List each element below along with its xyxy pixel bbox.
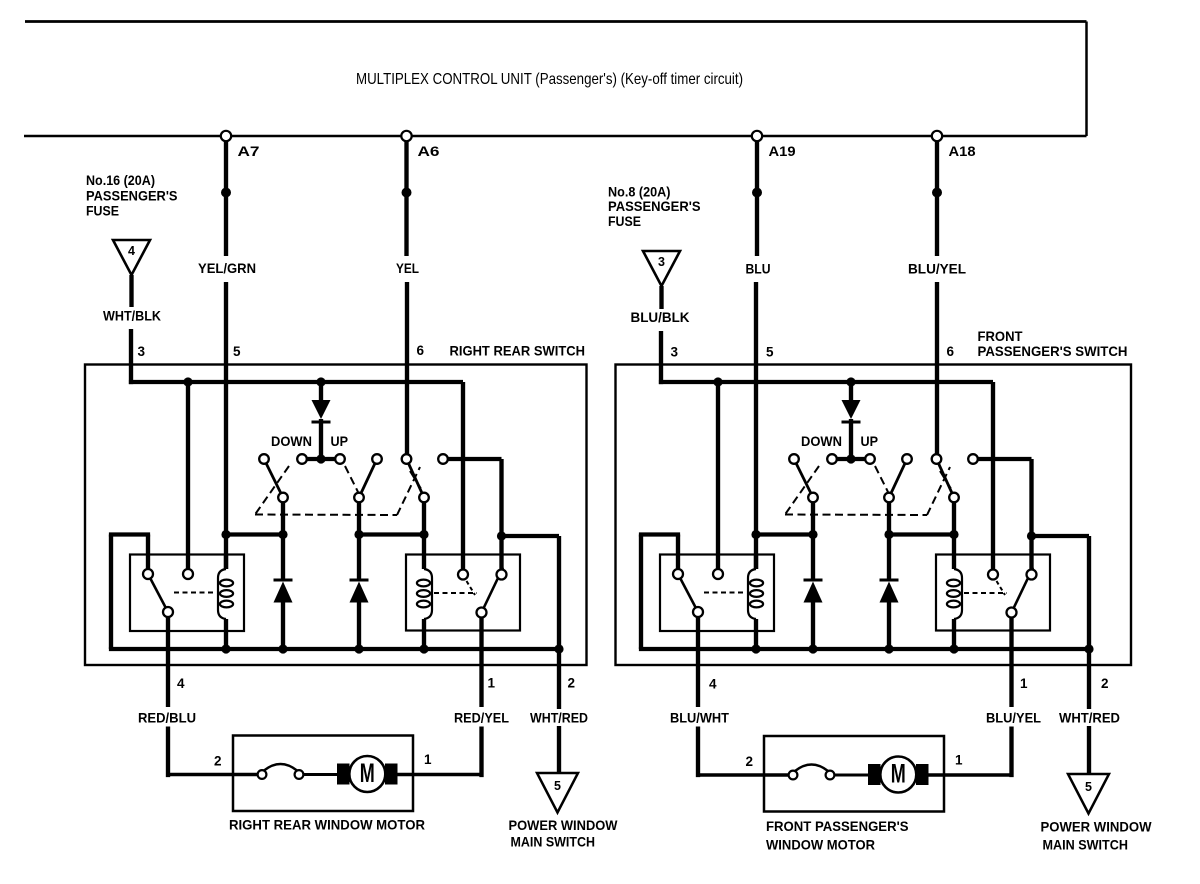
svg-text:2: 2 [568,676,576,691]
svg-text:3: 3 [671,345,679,360]
svg-text:1: 1 [424,752,432,767]
svg-text:RIGHT REAR SWITCH: RIGHT REAR SWITCH [450,343,586,359]
svg-text:MAIN SWITCH: MAIN SWITCH [511,834,596,850]
svg-text:2: 2 [1101,676,1109,691]
svg-text:2: 2 [214,754,222,769]
svg-text:A6: A6 [418,144,441,159]
svg-text:6: 6 [947,344,955,359]
svg-text:POWER WINDOW: POWER WINDOW [1041,819,1153,835]
svg-text:2: 2 [746,754,754,769]
svg-text:M: M [891,759,906,789]
svg-text:PASSENGER'S: PASSENGER'S [608,198,701,214]
svg-text:WHT/RED: WHT/RED [530,710,588,726]
svg-text:4: 4 [177,676,185,691]
svg-text:RIGHT REAR WINDOW MOTOR: RIGHT REAR WINDOW MOTOR [229,817,425,833]
svg-text:RED/BLU: RED/BLU [138,710,196,726]
svg-text:DOWN: DOWN [801,433,842,449]
svg-text:YEL: YEL [396,260,419,276]
svg-text:4: 4 [128,244,135,258]
svg-text:BLU/BLK: BLU/BLK [631,309,690,325]
svg-text:M: M [360,758,375,788]
svg-text:POWER WINDOW: POWER WINDOW [509,817,619,833]
svg-text:1: 1 [1020,676,1028,691]
svg-text:4: 4 [709,677,717,692]
svg-text:3: 3 [658,255,665,269]
svg-text:MULTIPLEX CONTROL UNIT (Passen: MULTIPLEX CONTROL UNIT (Passenger's) (Ke… [356,71,743,88]
svg-text:5: 5 [554,779,561,793]
svg-text:3: 3 [138,344,146,359]
svg-text:FUSE: FUSE [86,203,119,219]
svg-text:PASSENGER'S: PASSENGER'S [86,188,178,204]
svg-text:BLU/YEL: BLU/YEL [908,261,966,277]
svg-text:YEL/GRN: YEL/GRN [198,260,256,276]
svg-text:WHT/RED: WHT/RED [1059,710,1120,726]
svg-text:BLU/WHT: BLU/WHT [670,710,729,726]
svg-text:UP: UP [861,433,879,449]
svg-text:DOWN: DOWN [271,433,312,449]
svg-text:PASSENGER'S SWITCH: PASSENGER'S SWITCH [978,343,1128,359]
svg-text:FUSE: FUSE [608,213,641,229]
svg-text:RED/YEL: RED/YEL [454,710,509,726]
svg-text:FRONT: FRONT [978,328,1023,344]
svg-text:UP: UP [331,433,349,449]
svg-text:1: 1 [488,676,496,691]
svg-text:BLU/YEL: BLU/YEL [986,710,1041,726]
svg-text:WHT/BLK: WHT/BLK [103,308,161,324]
svg-text:A18: A18 [949,144,977,159]
svg-text:FRONT PASSENGER'S: FRONT PASSENGER'S [766,818,909,834]
svg-text:No.16 (20A): No.16 (20A) [86,172,155,188]
svg-text:6: 6 [417,343,425,358]
svg-text:A7: A7 [238,144,260,159]
svg-text:5: 5 [1085,780,1092,794]
svg-text:BLU: BLU [746,261,771,277]
svg-text:5: 5 [233,344,241,359]
svg-text:5: 5 [766,345,774,360]
svg-text:MAIN SWITCH: MAIN SWITCH [1043,837,1129,853]
svg-text:WINDOW MOTOR: WINDOW MOTOR [766,837,875,853]
svg-text:1: 1 [955,753,963,768]
svg-text:A19: A19 [769,144,796,159]
